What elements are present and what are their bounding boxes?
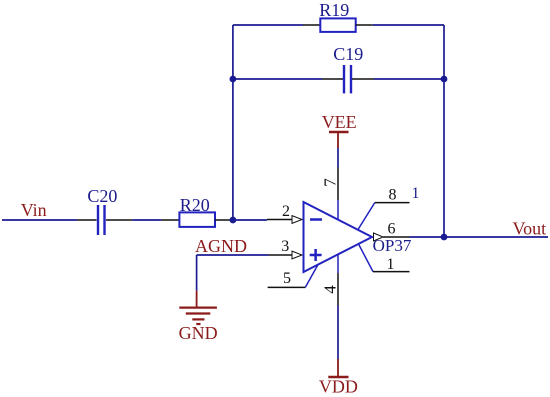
pin 2 lead <box>267 219 292 221</box>
svg-text:6: 6 <box>388 221 396 238</box>
svg-text:GND: GND <box>179 323 218 343</box>
pin 6 lead <box>383 236 410 238</box>
wire VEE to pin 7 <box>337 148 339 168</box>
wire top left to R19 <box>233 24 303 26</box>
ground symbol GND <box>179 291 217 324</box>
pin 3 lead <box>269 254 293 256</box>
svg-text:1: 1 <box>387 256 395 273</box>
svg-text:Vin: Vin <box>21 200 47 220</box>
svg-text:C20: C20 <box>87 186 117 206</box>
pin 5 stub diagonal <box>305 265 318 288</box>
wire AGND vertical <box>196 255 198 291</box>
op-amp plus symbol <box>310 249 322 261</box>
resistor R19 <box>303 18 373 32</box>
pin 6 arrow <box>374 233 384 241</box>
op-amp U OP37 triangle <box>304 202 373 272</box>
pin 2 arrow <box>292 216 302 224</box>
wire C20 to R20 <box>132 219 161 221</box>
node junction R20 output <box>230 217 237 224</box>
wire right vertical feedback <box>443 25 445 237</box>
svg-text:AGND: AGND <box>195 236 247 256</box>
op-amp minus symbol <box>310 218 322 221</box>
wire C19 right <box>374 78 444 80</box>
resistor R20 <box>162 212 232 227</box>
pin 1 lead <box>373 271 410 273</box>
pin 8 stub diagonal <box>358 203 375 230</box>
pin 7 stub <box>337 200 339 220</box>
pin 8 lead <box>375 202 410 204</box>
capacitor C19 <box>322 65 374 93</box>
wire AGND to pin 3 <box>197 254 269 256</box>
svg-text:R19: R19 <box>319 0 349 20</box>
svg-text:2: 2 <box>282 203 290 220</box>
pin 7 lead <box>337 168 339 201</box>
node junction output <box>441 234 448 241</box>
svg-text:5: 5 <box>283 270 291 287</box>
pin 5 lead <box>268 286 306 288</box>
svg-text:4: 4 <box>321 285 340 294</box>
svg-text:VDD: VDD <box>319 377 358 397</box>
pin 4 stub <box>337 254 339 273</box>
wire pin 4 to VDD <box>337 306 339 360</box>
svg-text:1: 1 <box>412 185 420 202</box>
pin 1 stub diagonal <box>359 244 374 272</box>
svg-text:Vout: Vout <box>512 219 546 239</box>
node junction C19 right <box>441 76 448 83</box>
wire C19 left <box>233 78 322 80</box>
power symbol VDD <box>328 359 348 377</box>
svg-text:C19: C19 <box>333 44 363 64</box>
wire left vertical feedback <box>232 25 234 220</box>
svg-text:3: 3 <box>281 238 289 255</box>
wire Vin input <box>2 219 77 221</box>
svg-text:8: 8 <box>389 187 397 204</box>
pin 3 arrow <box>292 251 302 259</box>
power symbol VEE <box>329 132 349 148</box>
pin 4 lead <box>337 273 339 306</box>
svg-text:R20: R20 <box>180 195 210 215</box>
svg-text:VEE: VEE <box>322 112 357 132</box>
svg-text:7: 7 <box>321 178 340 187</box>
wire R19 to top right <box>373 24 444 26</box>
wire R20 to op-amp pin 2 <box>232 219 267 221</box>
capacitor C20 <box>77 205 132 235</box>
wire output to Vout <box>410 236 549 238</box>
node junction C19 left <box>230 76 237 83</box>
